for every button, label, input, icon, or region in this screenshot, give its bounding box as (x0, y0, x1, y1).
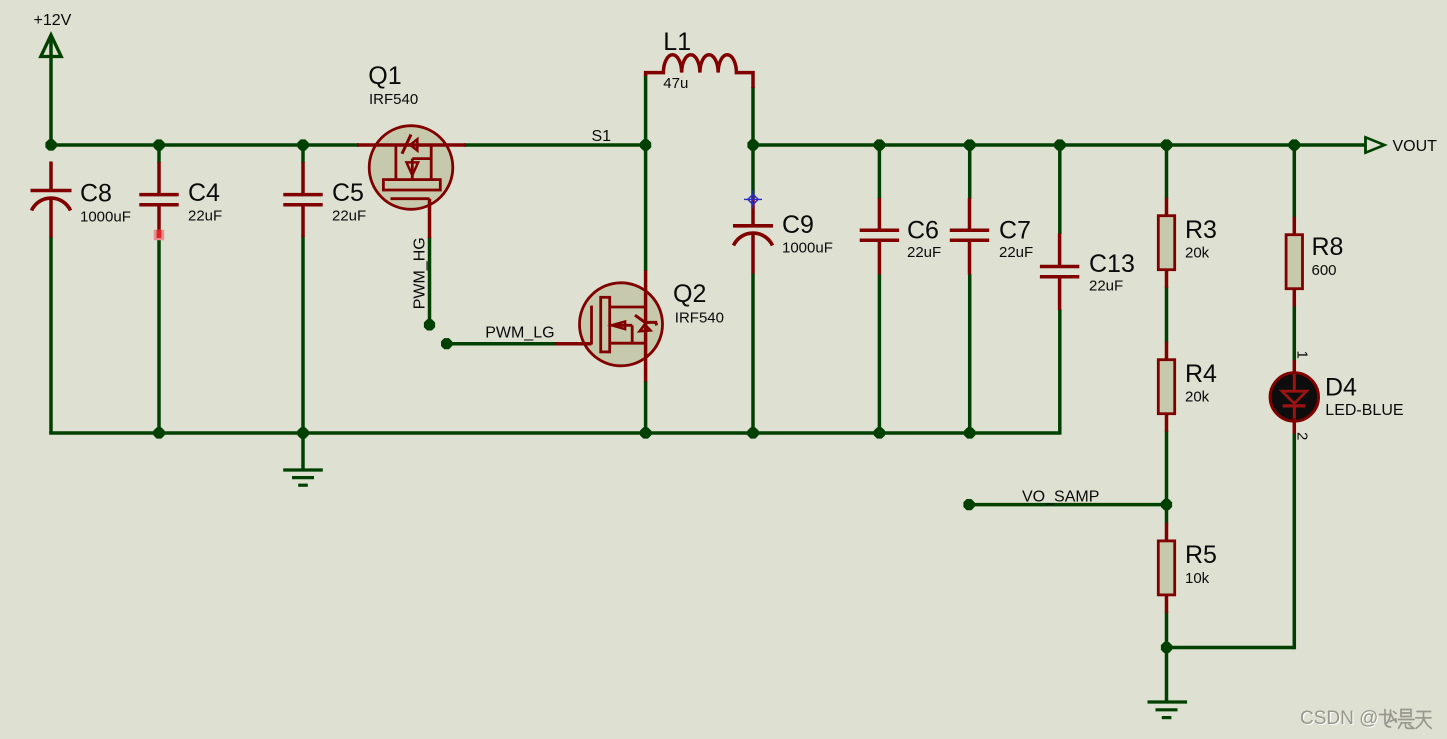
wire: rail to C6 top (878, 145, 882, 199)
watermark CSDN (1300, 708, 1380, 730)
LED D4 LED-BLUE (1270, 351, 1403, 441)
wire: C13 bottom to bottom rail corner (1058, 309, 1062, 433)
wire: rail to C5 top (301, 145, 305, 163)
svg-text:22uF: 22uF (188, 207, 222, 224)
svg-text:C6: C6 (907, 217, 939, 245)
junction dot C13 top (1054, 139, 1065, 150)
junction dot L1/C9 (747, 139, 758, 150)
wire: D4 cathode down to bottom corner (1293, 434, 1297, 650)
svg-text:R3: R3 (1185, 216, 1217, 244)
junction dot C7 top (964, 139, 975, 150)
svg-text:1000uF: 1000uF (80, 208, 131, 225)
junction dot C6 bottom (874, 427, 885, 438)
svg-text:22uF: 22uF (999, 244, 1033, 261)
svg-text:+12V: +12V (34, 12, 72, 29)
svg-text:R8: R8 (1312, 233, 1344, 261)
wire: Q2 source to bottom rail (644, 381, 648, 433)
junction dot node S1 (640, 139, 651, 150)
svg-text:C5: C5 (332, 179, 364, 207)
capacitor C9 (733, 198, 833, 274)
capacitor C13 (1040, 234, 1135, 311)
svg-text:R5: R5 (1185, 541, 1217, 569)
wire: rail to C13 top (1058, 145, 1062, 234)
svg-text:20k: 20k (1185, 389, 1210, 406)
junction dot C4 top (153, 139, 164, 150)
junction dot PWM_HG end (424, 319, 435, 330)
junction dot PWM_LG end (441, 338, 452, 349)
svg-text:D4: D4 (1325, 374, 1357, 402)
wire: rail to C7 top (968, 145, 972, 199)
resistor R8 (1286, 217, 1343, 307)
svg-text:VOUT: VOUT (1393, 138, 1438, 155)
resistor R4 (1158, 342, 1217, 432)
capacitor C4 (139, 162, 222, 237)
junction dot R8 top (1289, 139, 1300, 150)
junction dot C9 bottom (747, 427, 758, 438)
wire: rail to C4 top (157, 145, 161, 163)
junction dot VO_SAMP node (1161, 499, 1172, 510)
wire: rail to R8 top (1293, 145, 1297, 218)
wire: rail to R3 top (1165, 145, 1169, 199)
wire: C6 bottom to bottom rail (878, 274, 882, 433)
watermark hanzi (drawn strokes) (1380, 710, 1432, 729)
marker: blue origin marker on C9 net (744, 190, 762, 208)
wire: C4 bottom to bottom rail (157, 236, 161, 433)
inductor L1 47u (646, 28, 753, 92)
svg-text:2: 2 (1294, 432, 1311, 440)
wire: L1 right lead down to VOUT rail (751, 87, 755, 145)
wire: rail to C9 top (751, 145, 755, 198)
svg-text:S1: S1 (592, 128, 612, 145)
junction dot R3 top (1161, 139, 1172, 150)
wire: bottom ground rail (49, 431, 1061, 435)
wire: C7 bottom to bottom rail (968, 274, 972, 433)
svg-text:600: 600 (1312, 262, 1337, 279)
svg-text:C8: C8 (80, 180, 112, 208)
svg-text:IRF540: IRF540 (369, 91, 418, 108)
power terminal +12V (34, 12, 72, 57)
marker: red highlight square on C4 pin (154, 230, 164, 240)
junction dot +12V node (45, 139, 56, 150)
svg-text:R4: R4 (1185, 360, 1217, 388)
svg-text:C9: C9 (782, 211, 814, 239)
capacitor C7 (950, 198, 1033, 275)
svg-text:Q2: Q2 (673, 280, 706, 308)
transistor Q2 IRF540 (555, 271, 724, 382)
svg-text:IRF540: IRF540 (675, 310, 724, 327)
resistor R3 (1158, 198, 1217, 288)
svg-text:22uF: 22uF (907, 244, 941, 261)
terminal VOUT (1366, 137, 1438, 155)
svg-text:1: 1 (1294, 351, 1311, 359)
wire: top rail right section (L1 to VOUT terminal) (753, 143, 1366, 147)
junction dot VO_SAMP end (963, 499, 974, 510)
junction dot C6 top (874, 139, 885, 150)
ground symbol under C5 (283, 433, 323, 485)
ground symbol under R5 (1148, 648, 1188, 718)
hanzi tian (1416, 712, 1432, 729)
wire: +12V terminal down to top rail (49, 38, 53, 145)
wire: VO_SAMP stub (969, 503, 1167, 507)
wire: top rail left section (+12V node to S1) (51, 143, 359, 147)
junction dot C4 bottom (153, 427, 164, 438)
svg-text:1000uF: 1000uF (782, 240, 833, 257)
wire: D4 branch to ground node (1167, 646, 1295, 650)
capacitor C5 (283, 162, 366, 237)
wire: R8 bottom to D4 anode (1293, 306, 1297, 361)
wire: C9 bottom to bottom rail (751, 273, 755, 433)
svg-text:LED-BLUE: LED-BLUE (1325, 402, 1403, 419)
wire: C8 down to bottom rail (49, 237, 53, 433)
resistor R5 (1158, 523, 1217, 613)
wire: R4 bottom to VO_SAMP node to R5 top (1165, 431, 1169, 524)
svg-text:22uF: 22uF (332, 207, 366, 224)
wire: R5 bottom to ground node (1165, 612, 1169, 648)
hanzi long (1380, 710, 1397, 728)
svg-text:10k: 10k (1185, 570, 1210, 587)
wire: top rail Q1 to S1 junction (464, 143, 646, 147)
wire: R3 bottom to R4 top (1165, 287, 1169, 343)
svg-text:C7: C7 (999, 217, 1031, 245)
wire: PWM_HG vertical (428, 237, 432, 325)
svg-text:Q1: Q1 (368, 62, 401, 90)
wire: PWM_LG horizontal (447, 342, 556, 346)
junction dot C5 bottom (297, 427, 308, 438)
svg-text:C4: C4 (188, 179, 220, 207)
wire: C5 bottom to bottom rail (301, 236, 305, 433)
svg-text:CSDN @: CSDN @ (1300, 708, 1378, 729)
junction dot ground node (1161, 642, 1172, 653)
transistor Q1 IRF540 (357, 62, 466, 238)
svg-text:L1: L1 (663, 28, 691, 56)
junction dot C5 top (297, 139, 308, 150)
svg-text:PWM_LG: PWM_LG (485, 325, 554, 342)
junction dot Q2 source bottom (640, 427, 651, 438)
wire: S1 junction down to Q2 drain (644, 145, 648, 271)
svg-text:VO_SAMP: VO_SAMP (1022, 489, 1099, 506)
svg-text:C13: C13 (1089, 250, 1135, 278)
capacitor C6 (860, 198, 942, 275)
svg-text:PWM_HG: PWM_HG (412, 237, 429, 309)
wire: S1 junction up to L1 left lead (644, 75, 648, 145)
capacitor C8 (31, 162, 131, 238)
hanzi chen (1399, 710, 1415, 729)
svg-text:47u: 47u (663, 75, 688, 92)
svg-text:22uF: 22uF (1089, 278, 1123, 295)
junction dot C7 bottom (964, 427, 975, 438)
svg-text:20k: 20k (1185, 245, 1210, 262)
